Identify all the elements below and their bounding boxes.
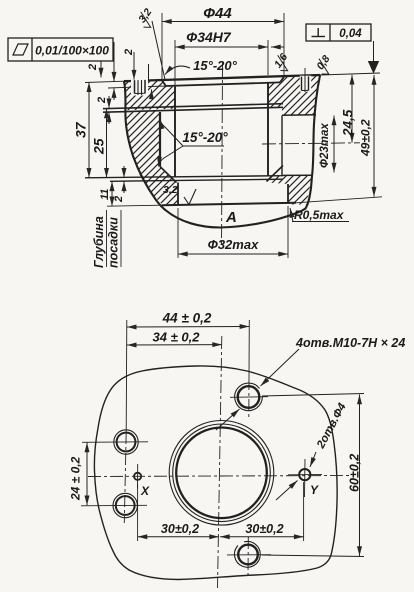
bore wall right [267,83,269,176]
svg-text:Глубина: Глубина [92,216,106,268]
main bore circles [169,421,274,526]
hatch left lower wall [126,111,179,205]
svg-text:3,2: 3,2 [163,184,178,196]
tapped hole M10 bottom right [227,541,271,567]
tapped hole M10 top right [230,383,268,411]
svg-text:4отв.М10-7Н × 24: 4отв.М10-7Н × 24 [295,336,405,350]
dimension 2 bottom [113,166,125,203]
dimension 30+-0,2 right [220,482,304,541]
recess wall left (thick) [159,112,161,167]
cast flange outline [94,366,337,580]
recess bottom extension left [108,86,166,88]
svg-text:2: 2 [113,196,125,203]
svg-text:2: 2 [96,97,108,104]
svg-text:X: X [140,484,150,498]
dimension 37 [73,82,90,177]
svg-text:30±0,2: 30±0,2 [245,522,283,536]
note R0,5max [290,208,349,222]
datum triangle on face [368,41,379,74]
dimension 30+-0,2 left [138,484,219,541]
angle label 15-20 middle [159,120,229,167]
svg-text:Ф34Н7: Ф34Н7 [186,29,232,45]
recess wall right [281,116,283,176]
svg-text:15°-20°: 15°-20° [182,130,228,145]
svg-text:2: 2 [123,49,135,56]
top face extension left [85,81,124,82]
side hole top edge [282,114,316,117]
main horizontal centerline [88,476,352,477]
svg-text:44 ± 0,2: 44 ± 0,2 [162,311,212,326]
hatch right lower wall [268,176,312,205]
dimension 11 [99,181,112,206]
roughness 3,2 top left [134,6,165,79]
left holes column centerline [125,320,128,432]
pocket wall right [287,184,289,204]
svg-text:Ф23max: Ф23max [319,123,331,168]
right holes column centerline [248,320,250,378]
svg-text:A: A [225,209,237,226]
tapped hole M10 left upper [82,430,148,454]
vertical center axis [222,63,223,247]
dimension D34H7 [175,29,284,86]
dimension D44 [162,5,284,81]
dimension 2 recess depth [87,42,114,100]
svg-text:37: 37 [73,121,89,138]
perpendicularity frame 0,04 [306,24,371,41]
bottom face extension left [107,205,162,206]
svg-text:30±0,2: 30±0,2 [161,522,199,536]
dimension 44+-0,2 [127,311,250,328]
shoulder line lower [110,179,283,181]
side hole axis [262,143,360,144]
note 2otv F4 [310,401,349,467]
dimension D23max [319,116,334,173]
hole Y [288,459,322,497]
dimension 2 tapped hole chamfer [123,49,152,99]
hatch right upper wall [268,75,320,115]
dimension 24+-0,2 [69,443,88,506]
note Glubina posadki [92,210,121,268]
bottom face extension right [296,197,382,203]
top face extension right [320,73,380,75]
dimension 2 groove [96,96,109,124]
outer cast profile [124,75,320,227]
main vertical centerline [218,336,222,588]
groove line lower [103,107,283,112]
svg-text:Ф32max: Ф32max [208,237,259,252]
svg-text:24 ± 0,2: 24 ± 0,2 [69,456,83,501]
svg-text:34 ± 0,2: 34 ± 0,2 [153,330,201,345]
roughness 3,2 bottom [163,184,196,205]
svg-text:49±0,2: 49±0,2 [359,119,373,157]
dimension 49+-0,2 [359,75,375,197]
recess left slant [162,81,166,86]
svg-text:посадки: посадки [107,217,121,268]
groove line upper [103,104,283,109]
cone chamfer right [267,166,284,182]
dimension 60+-0,2 [262,394,364,557]
leader arrow at top M10 hole [216,409,240,430]
bore wall left [174,87,176,177]
top face (machined) [124,75,320,81]
tapped hole M10 left lower [81,493,147,517]
svg-text:0,01/100×100: 0,01/100×100 [35,44,109,58]
dimension D32max [178,206,288,258]
pocket wall left [177,183,179,206]
angle label 15-20 top [165,58,238,75]
cone chamfer left [160,167,177,183]
recess bottom (depth 2) [166,82,280,86]
svg-text:25: 25 [91,138,107,155]
shoulder line upper [85,176,283,178]
recess right slant [280,77,284,83]
tapped hole right (section) [300,68,311,92]
dimension 34+-0,2 [127,330,222,346]
side hole bottom edge [283,174,312,176]
svg-text:Ф44: Ф44 [203,5,232,22]
svg-text:60±0,2: 60±0,2 [348,454,362,492]
dimension 24,5 [341,75,356,143]
svg-text:2: 2 [87,64,99,71]
svg-text:15°-20°: 15°-20° [193,58,237,73]
bottom face A [162,203,296,205]
tapped hole left (section) [131,79,148,96]
hatch left upper wall [124,80,175,110]
svg-text:24,5: 24,5 [341,109,356,137]
dimension 25 [91,109,107,178]
hole X [134,464,150,498]
note 4otv M10-7H x 24 [261,336,406,386]
roughness 0,8 [313,53,337,77]
roughness 1,6 [271,51,294,74]
leader arrow at hole Y [276,481,298,501]
svg-text:Y: Y [310,483,319,497]
svg-text:11: 11 [99,189,111,200]
flatness tolerance frame 0,01/100x100 [8,38,113,78]
svg-text:R0,5max: R0,5max [294,208,345,222]
svg-text:0,04: 0,04 [339,28,362,40]
